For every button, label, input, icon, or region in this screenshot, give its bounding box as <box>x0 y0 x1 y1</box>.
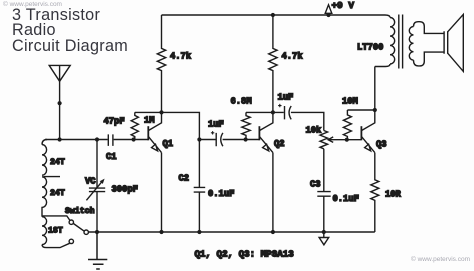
svg-text:10R: 10R <box>385 190 402 200</box>
capacitor VC arrowhead <box>100 179 105 184</box>
wire 1M-Q1-coupling <box>135 112 200 139</box>
transistor Q1 collector <box>148 112 161 130</box>
svg-text:Q1: Q1 <box>163 139 174 149</box>
svg-text:Switch: Switch <box>65 206 95 216</box>
wire Q1 emitter down <box>161 153 163 232</box>
transistor Q2 collector <box>259 112 273 130</box>
wire VC bottom <box>96 192 98 232</box>
switch blade <box>73 224 84 232</box>
supply +9V arrow <box>328 13 330 15</box>
node rail C3 junction <box>322 230 326 234</box>
capacitor C3 <box>317 192 330 232</box>
title <box>12 8 128 54</box>
coil tap stub <box>44 176 61 178</box>
node C2 top junction <box>197 137 201 141</box>
transformer secondary top lead <box>414 22 445 34</box>
svg-text:0.1uF: 0.1uF <box>208 189 234 199</box>
ground bars <box>88 232 107 269</box>
transistor Q3 base bar <box>360 126 362 140</box>
svg-text:Q1, Q2, Q3: MPSA13: Q1, Q2, Q3: MPSA13 <box>195 248 295 259</box>
node rail Q1 emitter junction <box>159 230 163 234</box>
node rail Q2 emitter junction <box>271 230 275 234</box>
node Q2 collector junction <box>271 110 275 114</box>
wire Q2 emitter down <box>272 153 274 232</box>
svg-text:C3: C3 <box>310 180 321 190</box>
svg-text:4.7k: 4.7k <box>170 51 192 61</box>
node rail C2 junction <box>197 230 201 234</box>
capacitor C1 plates <box>108 134 113 146</box>
node rail +9V junction <box>326 13 330 17</box>
node 1M bottom junction <box>132 137 136 141</box>
resistor R 4.7k first <box>157 15 165 112</box>
node rail VC junction <box>95 230 99 234</box>
svg-text:VC: VC <box>85 177 96 187</box>
svg-text:C2: C2 <box>179 173 190 183</box>
coil tap to switch <box>42 216 70 221</box>
svg-text:300pF: 300pF <box>112 184 138 194</box>
wire pot to C3 <box>323 149 325 192</box>
svg-text:4.7k: 4.7k <box>282 51 304 61</box>
transistor Q2 emitter <box>259 136 273 152</box>
svg-text:1uF: 1uF <box>208 120 224 130</box>
capacitor C2 <box>194 140 206 233</box>
svg-text:10M: 10M <box>342 96 358 106</box>
wire antenna feed <box>59 81 61 139</box>
transistor Q3 emitter arrow <box>365 144 371 151</box>
svg-text:24T: 24T <box>50 189 65 198</box>
svg-text:0.1uF: 0.1uF <box>333 194 359 204</box>
node VC top junction <box>95 137 99 141</box>
watermark bottom-right <box>411 256 470 263</box>
resistor 10R <box>371 153 379 232</box>
potentiometer wiper <box>328 137 361 143</box>
wire coil top to C1 <box>45 139 108 141</box>
coil L1 top lead <box>42 140 47 145</box>
transformer primary bottom lead <box>375 64 390 67</box>
svg-text:Q2: Q2 <box>274 139 285 149</box>
potentiometer 10k body <box>320 131 328 149</box>
switch contact upper <box>69 220 73 224</box>
wire 1uF to Q2 base <box>223 139 260 141</box>
wire 10M top <box>347 109 374 111</box>
antenna <box>49 65 70 81</box>
node Q1 collector junction <box>159 110 163 114</box>
wire 1uF2 to pot <box>291 112 324 130</box>
resistor 1M <box>131 112 138 139</box>
coil L1 winding middle 24T <box>42 177 47 217</box>
transformer primary winding <box>390 18 395 65</box>
transistor Q1 emitter arrow <box>152 144 158 151</box>
transistor Q3 collector <box>361 67 374 131</box>
speaker cone <box>448 14 464 71</box>
svg-text:18T: 18T <box>48 227 63 236</box>
svg-text:1uF: 1uF <box>278 92 294 102</box>
svg-text:6.8M: 6.8M <box>231 97 252 107</box>
wire 6.8M top to Q2 collector <box>246 111 284 113</box>
switch pole <box>84 230 88 234</box>
svg-text:47pF: 47pF <box>104 117 125 127</box>
transistor Q3 emitter <box>361 136 374 152</box>
node antenna-coil junction <box>58 137 62 141</box>
switch contact lower <box>69 239 73 243</box>
transformer secondary bottom lead <box>414 52 445 66</box>
resistor R 4.7k second <box>269 15 277 112</box>
capacitor 1uF second <box>285 106 292 119</box>
coil L1 winding upper 24T <box>42 145 47 176</box>
transistor Q1 base bar <box>147 126 149 140</box>
wire C1 to Q1 base <box>114 139 149 141</box>
watermark top-left <box>3 1 62 8</box>
resistor 10M <box>343 110 351 140</box>
node Q3 collector junction <box>373 108 377 112</box>
coil L1 winding lower 18T <box>42 217 47 245</box>
transformer core <box>399 15 403 69</box>
capacitor VC arrow <box>86 182 102 201</box>
capacitor 1uF second plus <box>278 104 281 107</box>
capacitor VC plates <box>89 188 105 192</box>
node 10M bottom junction <box>345 138 349 142</box>
node rail-4.7k2 junction <box>271 13 275 17</box>
wire bottom rail <box>88 231 375 233</box>
node 6.8M bottom junction <box>244 137 248 141</box>
capacitor 1uF first plus <box>211 131 214 134</box>
wire top rail <box>162 15 391 18</box>
svg-text:LT700: LT700 <box>357 43 383 53</box>
svg-text:+9 V: +9 V <box>332 0 355 11</box>
speaker driver <box>444 31 448 54</box>
node antenna feed dot <box>58 101 62 105</box>
transistor Q2 base bar <box>258 126 260 140</box>
wire VC top <box>96 140 98 189</box>
svg-text:C1: C1 <box>106 152 117 162</box>
coil L1 bottom lead <box>42 243 70 247</box>
wire to 1uF cap <box>199 139 215 141</box>
resistor 6.8M <box>242 112 250 139</box>
transistor Q2 emitter arrow <box>263 144 269 151</box>
capacitor 1uF first <box>216 133 223 146</box>
svg-text:Q3: Q3 <box>376 140 387 150</box>
transformer secondary winding <box>409 27 413 61</box>
svg-text:1M: 1M <box>144 116 155 126</box>
ground triangle <box>323 232 325 238</box>
svg-text:24T: 24T <box>50 158 65 167</box>
svg-text:10k: 10k <box>306 126 323 136</box>
transistor Q1 emitter <box>148 136 161 152</box>
